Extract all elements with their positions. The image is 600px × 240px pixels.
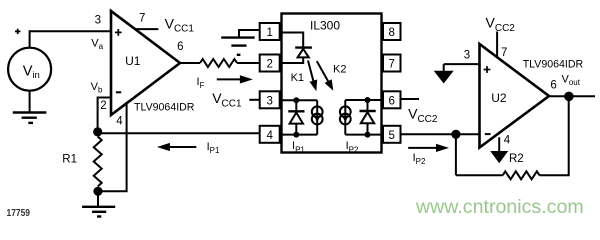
- svg-text:TLV9064IDR: TLV9064IDR: [523, 59, 584, 71]
- U1 pin 4 label: [116, 115, 123, 127]
- node C (feedback junction): [451, 130, 460, 139]
- photodiode PD2: [360, 100, 376, 135]
- K1 label: [291, 72, 304, 84]
- U2 part number TLV9064IDR: [523, 59, 584, 71]
- node PD2 anode junction: [365, 132, 371, 138]
- svg-text:4: 4: [266, 130, 273, 142]
- node Vout junction: [564, 92, 574, 102]
- IL300 pin 7 box: [383, 55, 401, 72]
- net VCC1 (at IL300 pin 3): [212, 90, 242, 109]
- LED K1 triangle: [298, 49, 309, 58]
- ground (at IL300 pin 1): [221, 38, 255, 55]
- U2 pin 6 label: [550, 79, 556, 91]
- resistor R1: [94, 137, 102, 187]
- wire feedback bottom left segment: [456, 174, 503, 176]
- U2 non-inverting input marker +: [484, 66, 491, 73]
- net VCC2 (at IL300 pin 6): [408, 106, 438, 125]
- U1 Vb label: [91, 81, 103, 95]
- svg-text:VCC1: VCC1: [212, 90, 242, 109]
- svg-text:6: 6: [177, 41, 183, 53]
- IL300 pin 2 box: [260, 55, 280, 72]
- svg-text:7: 7: [139, 13, 145, 25]
- svg-text:7: 7: [501, 47, 507, 59]
- svg-text:IP1: IP1: [207, 141, 220, 155]
- U2 pin 4 stub and label: [499, 135, 511, 151]
- wire U2 +input to ground arrow: [444, 63, 480, 65]
- U2 designator: [491, 91, 507, 105]
- IP2 label (inside IL300): [346, 140, 359, 154]
- ground arrow (U2 pin 3): [434, 64, 454, 83]
- U1 non-inverting input marker +: [115, 29, 122, 36]
- wire IL300 pin3 rail (top of PD1): [282, 99, 318, 101]
- wire U1 -input (Vb) to R1 top node: [98, 98, 111, 132]
- svg-text:Vout: Vout: [562, 73, 581, 87]
- IL300 pin 5 box: [383, 126, 401, 143]
- IL300 pin 6 box: [383, 91, 401, 108]
- wire IL300 pin1 to LED cathode: [282, 33, 304, 48]
- wire feedback node down: [455, 134, 457, 175]
- wire IL300 pin 5 to U2 -input: [402, 133, 480, 135]
- svg-text:TLV9064IDR: TLV9064IDR: [134, 101, 195, 113]
- svg-text:3: 3: [95, 15, 101, 27]
- current source CS1 (Ip1): [312, 100, 323, 134]
- resistor R2: [503, 171, 540, 179]
- Vout label: [562, 73, 581, 87]
- svg-text:Vin: Vin: [23, 64, 40, 82]
- node B (R1 bottom junction): [93, 187, 102, 196]
- ground (below R1): [82, 207, 115, 217]
- wire R1 bottom to ground: [97, 193, 99, 207]
- R2 label: [509, 153, 524, 165]
- current source CS2 (Ip2): [340, 100, 351, 135]
- IF label: [197, 76, 205, 90]
- svg-text:2: 2: [266, 59, 272, 71]
- voltage source Vin: [8, 48, 51, 91]
- wire IL300 pin4 rail (bottom of PD1): [282, 134, 318, 136]
- optocoupler IL300 body: [282, 14, 382, 153]
- IL300 label: [310, 18, 340, 32]
- wire U1 pin 4 down and left to ground node: [98, 102, 127, 191]
- U1 inverting input marker -: [116, 91, 121, 93]
- svg-text:3: 3: [464, 49, 470, 61]
- U1 Va label: [91, 37, 103, 51]
- wire Vin top to U1 +input: [30, 31, 111, 48]
- wire IL300 pin 6 to VCC2: [402, 98, 420, 100]
- node PD2 cathode junction: [365, 97, 371, 103]
- op-amp U1 triangle: [111, 11, 180, 115]
- svg-text:IL300: IL300: [310, 18, 340, 32]
- node PD1 cathode junction: [293, 97, 299, 103]
- U2 pin 7 label: [501, 47, 507, 59]
- node PD1 anode junction: [293, 132, 299, 138]
- svg-text:5: 5: [388, 130, 394, 142]
- U1 pin 7 label: [139, 13, 145, 25]
- LED K1 cathode bar: [295, 46, 312, 48]
- R1 label: [62, 153, 77, 165]
- svg-text:R2: R2: [509, 153, 524, 165]
- current arrow IF: [217, 75, 253, 83]
- svg-text:2: 2: [100, 100, 106, 112]
- IP2 label: [413, 152, 426, 166]
- optical coupling arrow K1: [308, 61, 317, 92]
- U2 pin 7 supply stub: [496, 32, 498, 58]
- wire IL300 pin5 rail (bottom of PD2): [345, 134, 381, 136]
- K2 label: [333, 63, 346, 75]
- svg-text:U1: U1: [125, 54, 141, 68]
- wire IL300 pin4 to R1 top node (Ip1 path): [98, 132, 261, 134]
- svg-text:Va: Va: [91, 37, 103, 51]
- svg-text:Vb: Vb: [91, 81, 103, 95]
- resistor (series, U1 out to IL300 pin 2): [200, 59, 237, 67]
- net VCC1 (at U1 pin 7): [165, 15, 195, 34]
- svg-text:R1: R1: [62, 153, 77, 165]
- node A (R1 top junction): [93, 127, 102, 136]
- wire VCC1 to IL300 pin 3: [249, 99, 260, 101]
- svg-text:IF: IF: [197, 76, 205, 90]
- svg-text:7: 7: [388, 59, 394, 71]
- IL300 pin 8 box: [383, 23, 401, 40]
- wire IL300 pin6 rail (top of PD2): [345, 99, 381, 101]
- svg-text:8: 8: [388, 27, 394, 39]
- U1 pin 2 label: [100, 100, 106, 112]
- svg-text:K2: K2: [333, 63, 346, 75]
- U2 pin 3 label: [464, 49, 470, 61]
- wire IL300 pin1 to ground: [239, 30, 261, 38]
- IP1 label: [207, 141, 220, 155]
- IP1 label (inside IL300): [292, 140, 305, 154]
- U1 pin 3 label: [95, 15, 101, 27]
- svg-text:www.cntronics.com: www.cntronics.com: [415, 196, 584, 218]
- svg-text:K1: K1: [291, 72, 304, 84]
- net VCC2 (at U2 pin 7): [486, 15, 516, 34]
- svg-text:4: 4: [116, 115, 123, 127]
- watermark www.cntronics.com: [415, 196, 584, 218]
- wire LED anode to IL300 pin 2: [282, 57, 304, 63]
- current arrow IP1: [157, 143, 196, 151]
- U1 pin 7 supply stub: [135, 28, 158, 30]
- wire U1 output: [180, 62, 200, 64]
- ground (below Vin): [13, 113, 47, 123]
- svg-text:6: 6: [550, 79, 556, 91]
- IL300 pin 1 box: [260, 23, 280, 40]
- wire Vin bottom to ground: [29, 90, 31, 112]
- svg-text:VCC1: VCC1: [165, 15, 195, 34]
- svg-text:IP2: IP2: [413, 152, 426, 166]
- svg-text:VCC2: VCC2: [408, 106, 438, 125]
- U2 inverting input marker -: [485, 133, 491, 135]
- svg-text:U2: U2: [491, 91, 507, 105]
- U1 part number TLV9064IDR: [134, 101, 195, 113]
- node + (source positive terminal): [15, 29, 20, 34]
- current arrow IP2: [408, 144, 449, 152]
- svg-text:17759: 17759: [7, 208, 31, 219]
- U1 pin 6 label: [177, 41, 183, 53]
- wire resistor to IL300 pin 2: [237, 62, 260, 64]
- svg-text:4: 4: [504, 135, 511, 147]
- svg-text:3: 3: [266, 96, 272, 108]
- svg-text:6: 6: [388, 96, 394, 108]
- U1 designator: [125, 54, 141, 68]
- op-amp U2 triangle: [480, 44, 550, 148]
- optical coupling arrow K2: [317, 61, 334, 91]
- IL300 pin 4 box: [260, 126, 280, 143]
- wire U2 output: [549, 95, 595, 97]
- svg-text:VCC2: VCC2: [486, 15, 516, 34]
- IL300 pin 3 box: [260, 91, 280, 108]
- wire R2 to output: [540, 96, 569, 175]
- svg-text:1: 1: [266, 27, 272, 39]
- figure number 17759: [7, 208, 31, 219]
- photodiode PD1: [288, 100, 304, 134]
- ground arrow (U2 pin 4): [490, 151, 508, 163]
